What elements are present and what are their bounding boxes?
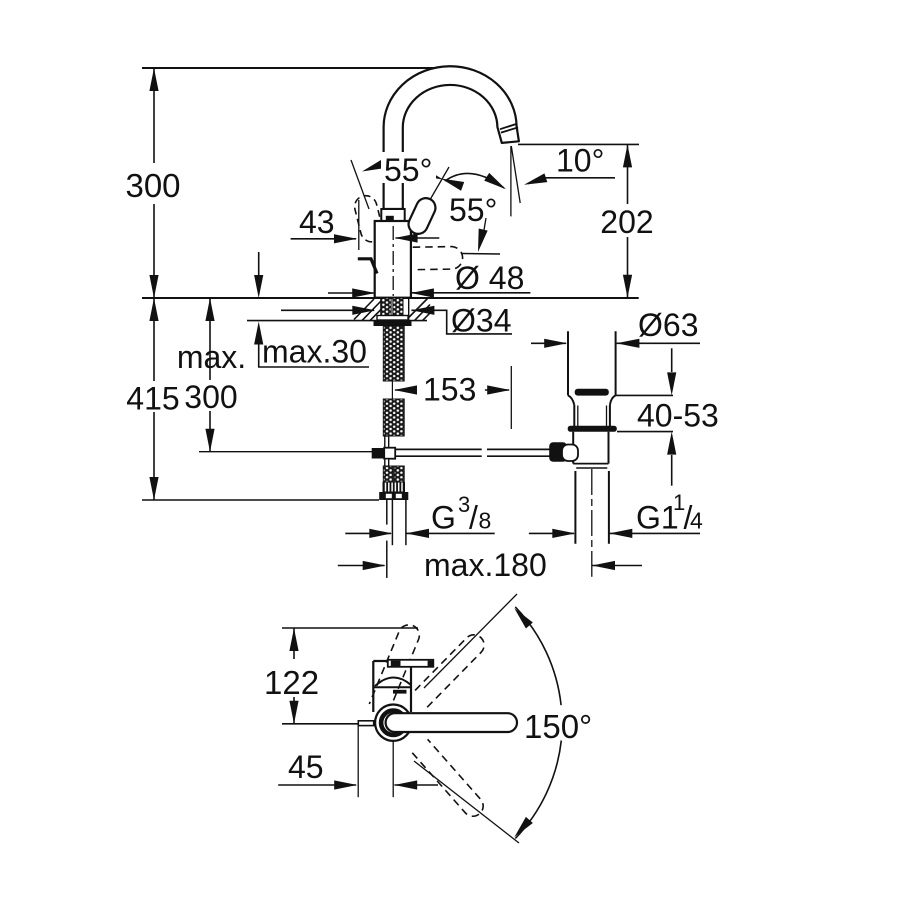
55-degree ray B (extension of solid handle axis) [409,167,449,236]
shoulder taper [568,395,574,405]
drain side port [562,445,578,462]
cartridge body [375,221,411,298]
dimension diameter 48 [328,260,530,298]
gooseneck spout (white filled) [384,66,519,209]
dimension 40-53 [616,348,719,485]
washer below counter [377,316,408,321]
spout base collar [381,209,404,221]
svg-text:8: 8 [479,508,492,534]
max.300 reference line at rod level [199,451,372,453]
dashed handle ghost (horizontal position) [413,247,463,270]
dimension 122 [264,628,319,724]
dimension diameter 34 [281,303,512,339]
dimension max.180 [338,547,642,583]
bottom reference line (415) [142,499,379,501]
svg-text:202: 202 [600,204,653,240]
svg-text:300: 300 [125,167,180,204]
svg-text:Ø34: Ø34 [451,303,511,339]
dimension 153 [394,366,511,429]
lever bar (plan, top view of handle) [388,660,434,667]
countertop line [142,297,639,299]
55-degree ray A (left, extension of dashed handle axis) [351,160,369,209]
svg-text:/: / [469,500,478,536]
counter underside line [247,320,427,322]
svg-text:122: 122 [264,664,319,701]
svg-text:4: 4 [690,508,703,534]
150-degree arc [515,607,561,705]
150-degree ray SE [414,761,519,843]
dashed lever ghost (swung up 75 deg / NE 45) [413,635,485,707]
drain flange (rosette) [568,426,617,432]
threaded shank through counter [381,298,391,316]
solid handle lever (up position) [405,195,438,237]
svg-text:max.180: max.180 [424,547,547,583]
hose nuts band [379,492,408,500]
base circle [375,705,411,741]
lever axis reference line [282,723,358,725]
svg-text:415: 415 [126,381,179,417]
label 55 deg (first, over pipe) [381,152,436,183]
pop-up rod (faucet to drain) [395,448,482,450]
svg-text:153: 153 [423,372,476,408]
svg-text:55°: 55° [384,152,432,188]
dimension 43 [291,200,440,250]
logo tick on body [393,690,407,694]
body centerline (dash-dot) [392,226,394,296]
dashed lever ghost (lifted, steep) [369,625,419,712]
dimension G3/8 [345,492,494,538]
bowtie arrowheads at ray B [420,167,445,184]
axis line of dashed horizontal handle [462,253,500,256]
pop-up pull rod hook at rear [358,259,377,274]
drain: upper tailpiece pipe [567,331,569,395]
dimension diameter 63 [531,307,700,348]
counter cross-section hatching left [354,299,381,321]
svg-text:300: 300 [184,379,237,415]
svg-text:Ø 48: Ø 48 [455,260,524,296]
dimension max.300 (below counter) [177,298,246,452]
svg-text:43: 43 [299,204,335,240]
dimension 202 [600,144,653,297]
stub above rod coupling [385,436,389,449]
mounting nut [374,320,412,326]
cartridge ring (thick) [381,711,405,735]
dashed handle ghost (left position) [355,196,383,242]
drain centerline [591,469,593,577]
counter hole edges [380,298,382,321]
SIDE VIEW [125,66,718,583]
G3/8 threaded connectors pair [383,466,393,482]
pop-up plug cap [575,389,609,396]
svg-text:40-53: 40-53 [637,398,719,434]
ribbed band [383,482,406,492]
arc from ray B to water line [445,173,504,188]
arrowhead on ray A [360,159,385,176]
svg-text:Ø63: Ø63 [638,307,698,343]
threaded shank lower section [383,399,404,436]
svg-text:150°: 150° [524,708,592,745]
counter cross-section hatching right [409,299,431,321]
svg-text:G: G [431,500,456,536]
rod knob at drain [549,442,567,462]
aerator band lines on spout tip [500,124,517,130]
svg-text:max.: max. [177,339,246,375]
flexible hose tails [386,500,388,525]
leader arrow down to horizontal handle axis [484,218,487,233]
stub below rod coupling [385,459,389,467]
lever (plan, pointing right) [386,713,517,732]
150-degree ray NE [424,594,517,688]
dimension G1 1/4 [529,490,703,538]
PLAN VIEW [264,594,592,843]
dashed lever ghost (swung down / SE 45) [412,739,483,816]
drain valve body [572,432,574,464]
dimension 300 (above counter) [125,68,180,298]
svg-text:max.30: max.30 [262,334,367,370]
dimension 45 [278,726,438,798]
pull-rod tab (plan) [358,721,373,726]
top reference line (spout height) [142,67,453,69]
black detail square on collar [386,216,394,222]
svg-text:10°: 10° [556,143,604,179]
shank gap centerline [391,378,393,402]
water stream reference lines below spout [510,146,512,216]
threaded shank upper section [383,326,404,381]
drain tailpipe [574,471,576,544]
dimension max.30 (counter thickness) [254,252,369,370]
rod coupling block [372,448,385,459]
spout outlet reference line (202 top) [518,143,639,145]
top reference line (spout reach) [282,627,418,629]
dimension max.415 [126,298,179,500]
faucet body (plan view) [373,661,411,712]
svg-text:45: 45 [288,749,324,785]
svg-text:55°: 55° [449,192,497,228]
drain neck [573,405,575,426]
